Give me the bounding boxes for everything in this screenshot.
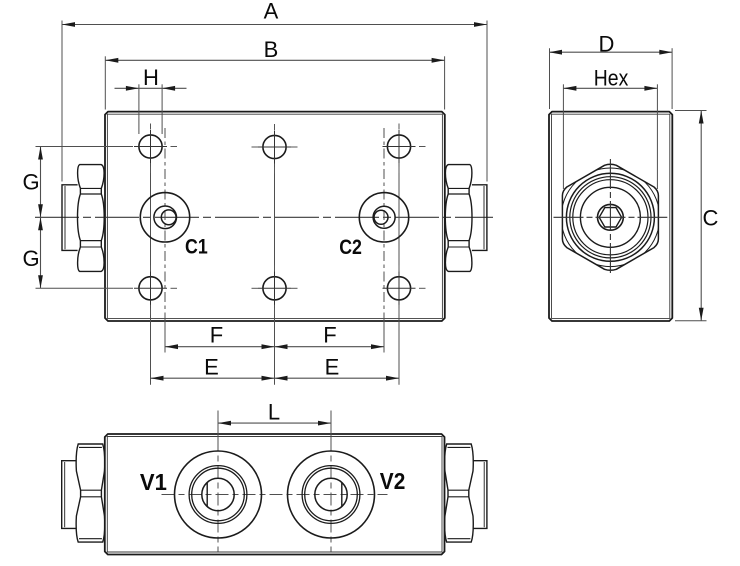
svg-text:V1: V1: [140, 469, 167, 495]
side view body outline: [549, 112, 672, 321]
side view nut circle r40.6: [570, 177, 651, 258]
dimension H extension lines: [138, 84, 140, 134]
bottom view body outline: [105, 434, 445, 555]
dimension Hex arrows: [563, 86, 576, 91]
mounting hole bottom-left: [134, 265, 177, 315]
dimension F line: [165, 346, 384, 348]
dimension A arrows: [62, 22, 75, 27]
extension line column x=399 (hole column right): [398, 147, 400, 385]
bottom view horizontal centerline: [162, 494, 388, 496]
front view body inner edge: [107, 114, 442, 318]
dimension L extension lines: [217, 411, 219, 439]
dimension G extension lines: [36, 146, 134, 148]
mounting hole bottom-right: [383, 265, 426, 315]
dimension H line: [115, 87, 187, 89]
dimension C arrows: [699, 111, 704, 124]
mounting hole bottom-middle: [252, 265, 298, 315]
port C1 centerline vertical: [164, 128, 166, 320]
front view body outline: [105, 112, 445, 321]
dimension D line: [549, 51, 672, 53]
svg-text:C2: C2: [339, 235, 362, 259]
dimension G line: [40, 147, 42, 289]
right fitting cap (front view): [472, 185, 487, 251]
dimension B arrows: [105, 58, 118, 63]
extension line column x=274.5 (hole column middle): [274, 147, 276, 385]
side view nut chamfer circle: [561, 168, 660, 267]
dimension C extension lines: [675, 110, 707, 112]
port V2: [288, 451, 375, 538]
dimension E line: [151, 377, 400, 379]
dimension C line: [700, 111, 702, 321]
dimension Hex extension lines: [562, 84, 564, 189]
port C2 centerline vertical: [383, 128, 385, 320]
extension line column x=150.5 (hole column left): [150, 147, 152, 385]
side view nut inner hex socket: [599, 208, 621, 227]
svg-text:E: E: [325, 354, 340, 379]
port C2: [359, 193, 408, 242]
svg-text:V2: V2: [380, 468, 406, 494]
dimension F arrows: [165, 344, 178, 349]
port V1 centerline vertical: [217, 439, 219, 552]
side view nut circle r30: [580, 187, 640, 247]
svg-text:F: F: [210, 323, 223, 348]
port C1: [140, 193, 189, 242]
right fitting hex nut (bottom view): [445, 444, 474, 542]
dimension B extension lines: [104, 56, 106, 109]
svg-text:C1: C1: [185, 235, 208, 259]
svg-text:G: G: [22, 246, 39, 271]
left fitting hex nut (front view): [78, 165, 105, 272]
dimension H arrows (outside pointing in): [126, 86, 139, 91]
mounting hole top-middle: [252, 124, 298, 174]
dimension A line: [62, 24, 487, 26]
dimension G arrows: [38, 147, 43, 160]
side view nut circle r44: [566, 173, 654, 261]
left fitting cap (front view): [62, 185, 78, 251]
dimension D extension lines: [549, 48, 551, 109]
port C1 extension below body: [164, 320, 166, 353]
bottom view body inner edge: [107, 437, 442, 553]
side view nut circle r37.6: [573, 180, 648, 255]
mounting hole top-right: [383, 124, 426, 174]
side view vertical centerline: [609, 159, 611, 276]
svg-text:L: L: [268, 400, 280, 425]
svg-text:F: F: [323, 323, 336, 348]
right fitting cap (bottom view): [473, 461, 487, 529]
dimension E arrows: [151, 376, 164, 381]
dimension B line: [105, 59, 444, 61]
dimension D arrows: [549, 50, 562, 55]
front view horizontal centerline: [35, 216, 493, 218]
dimension Hex line: [563, 87, 657, 89]
dimension A extension lines: [61, 21, 63, 182]
svg-text:C: C: [703, 206, 719, 231]
side view horizontal centerline: [554, 216, 668, 218]
right fitting hex nut (front view): [445, 165, 472, 272]
port C2 extension below body: [383, 320, 385, 353]
svg-text:G: G: [22, 169, 39, 194]
svg-text:A: A: [264, 0, 279, 24]
port V1: [175, 451, 262, 538]
svg-text:H: H: [143, 65, 159, 90]
side view body inner edge: [552, 114, 670, 318]
dimension L arrows: [218, 421, 231, 426]
svg-text:B: B: [264, 37, 279, 62]
left fitting cap (bottom view): [62, 461, 76, 529]
dimension L line: [218, 422, 331, 424]
svg-text:E: E: [204, 354, 219, 379]
left fitting hex nut (bottom view): [76, 444, 105, 542]
side view nut center circle: [598, 204, 624, 230]
mounting hole top-left: [134, 124, 177, 174]
port V2 centerline vertical: [330, 439, 332, 552]
svg-text:Hex: Hex: [594, 65, 629, 90]
